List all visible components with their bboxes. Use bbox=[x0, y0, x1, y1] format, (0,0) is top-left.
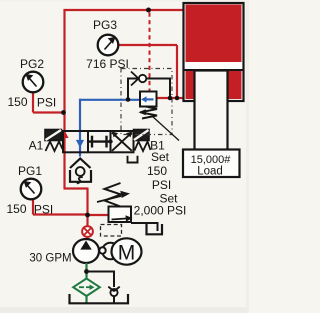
check valve CV1 bbox=[131, 72, 146, 86]
cylinder rod bbox=[195, 71, 228, 151]
node: PG2 tap junction bbox=[61, 110, 66, 115]
wire: relief valve feed (red) bbox=[88, 214, 111, 216]
node: suction junction bbox=[84, 269, 89, 274]
svg-text:150: 150 bbox=[147, 164, 167, 178]
tank symbol (small, under DCV right) bbox=[128, 156, 138, 163]
tank return symbol under DCV bbox=[70, 159, 91, 184]
electric motor M bbox=[112, 238, 142, 264]
wire: filter to tank (green stub) bbox=[85, 296, 87, 303]
label Set 2,000 PSI bbox=[134, 192, 187, 218]
flow arrow up (red, in valve left envelope) bbox=[60, 130, 68, 138]
wire: counterbalance outlet to cylinder rod end (red) bbox=[157, 97, 185, 99]
svg-text:M: M bbox=[118, 242, 136, 265]
svg-text:PSI: PSI bbox=[34, 203, 53, 217]
pump P1 bbox=[73, 239, 99, 263]
svg-text:150: 150 bbox=[6, 202, 26, 216]
svg-text:15,000#: 15,000# bbox=[191, 154, 232, 166]
counterbalance spring bbox=[139, 107, 158, 119]
scan edge artifacts bbox=[0, 0, 249, 313]
node: PG1 / relief junction bbox=[85, 213, 90, 218]
svg-text:30 GPM: 30 GPM bbox=[29, 253, 71, 265]
spring (left end) bbox=[46, 142, 63, 152]
node: pilot tap junction bbox=[146, 8, 151, 13]
DCV center envelope closed ports bbox=[89, 136, 110, 148]
wire: pressure line A (left vertical red) bbox=[63, 9, 65, 189]
relief vent dashed box bbox=[101, 225, 122, 237]
wire: return line B (blue vertical through valve) bbox=[79, 99, 81, 157]
label A1 bbox=[29, 139, 44, 153]
svg-text:PG3: PG3 bbox=[93, 18, 117, 32]
DCV right envelope crossed arrows bbox=[108, 132, 132, 151]
label B1 bbox=[150, 139, 165, 153]
reservoir tank bbox=[70, 294, 129, 303]
leader line to Set 150 PSI bbox=[152, 116, 179, 141]
wire: pump suction (green) bbox=[85, 263, 87, 279]
node: PG3 branch tap bbox=[175, 96, 180, 101]
directional valve DCV body bbox=[63, 131, 134, 152]
check valve branch wires bbox=[128, 79, 170, 101]
gauge isolator (red circle X) bbox=[82, 226, 93, 237]
wire: pump pressure line jog bbox=[64, 188, 88, 241]
filter F1 bbox=[73, 279, 100, 297]
wire: pilot line (red dashed) bbox=[149, 13, 151, 91]
svg-text:PSI: PSI bbox=[152, 178, 171, 192]
coupling bbox=[99, 247, 105, 253]
relief spring (adjustable) bbox=[97, 183, 130, 207]
wire: pressure line to cylinder cap (top horizontal red) bbox=[64, 9, 185, 11]
flow arrow down (blue, in valve left envelope) bbox=[76, 140, 84, 148]
counterbalance valve element bbox=[140, 92, 157, 107]
node: check branch right bbox=[168, 96, 173, 101]
check valve CV2 (bypass) bbox=[108, 287, 119, 303]
svg-text:A1: A1 bbox=[29, 139, 44, 153]
svg-text:150: 150 bbox=[7, 95, 27, 109]
solenoid A1 bbox=[45, 130, 62, 141]
wire: PG1 gauge branch bbox=[33, 199, 88, 215]
wire: relief outlet bbox=[131, 223, 158, 231]
label Set 150 PSI bbox=[147, 150, 171, 192]
pressure gauge PG3 bbox=[86, 18, 129, 71]
cylinder barrel bbox=[184, 3, 244, 101]
svg-text:PG2: PG2 bbox=[20, 57, 44, 71]
tank symbol (relief outlet) bbox=[147, 224, 163, 234]
load box 15,000# bbox=[183, 150, 240, 178]
counterbalance valve enclosure (dash-dot box) bbox=[121, 69, 172, 135]
svg-text:2,000 PSI: 2,000 PSI bbox=[134, 204, 187, 218]
wire: PG2 gauge branch bbox=[33, 91, 64, 113]
relief valve RV bbox=[109, 207, 133, 223]
spring (right end) bbox=[135, 142, 151, 152]
wire: PG3 gauge branch bbox=[118, 45, 177, 98]
wire: return line B (blue horizontal) bbox=[80, 99, 141, 101]
node: check branch left bbox=[126, 97, 131, 102]
svg-text:Load: Load bbox=[197, 166, 223, 178]
svg-text:PG1: PG1 bbox=[18, 164, 42, 178]
solenoid B1 bbox=[134, 130, 150, 141]
motor bell housing bbox=[102, 243, 119, 260]
pressure gauge PG1 bbox=[6, 164, 53, 217]
svg-text:PSI: PSI bbox=[37, 96, 56, 110]
label 30 GPM bbox=[29, 253, 71, 265]
svg-text:Set: Set bbox=[151, 150, 170, 164]
pressure gauge PG2 bbox=[7, 57, 56, 110]
wire: bypass branch to check valve bbox=[87, 272, 115, 288]
